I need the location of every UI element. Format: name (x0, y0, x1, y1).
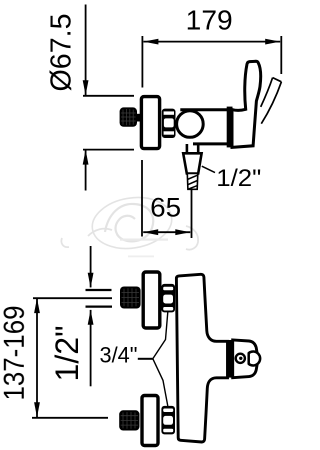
wall flange (side) (141, 97, 159, 149)
knob on cap (249, 352, 260, 366)
outlet stub (187, 144, 198, 153)
svg-text:137-169: 137-169 (0, 306, 31, 401)
svg-text:Ø67.5: Ø67.5 (46, 14, 78, 92)
extension line bottom for 137-169 (32, 417, 108, 419)
extension line right (handle tip) for 179 (280, 36, 282, 74)
screw (236, 354, 245, 363)
dimension 1/2 vertical line (front) (88, 246, 94, 386)
extension line right for 65 (191, 190, 193, 239)
supply pipe top line (86, 289, 112, 291)
svg-text:1/2": 1/2" (49, 326, 85, 382)
extension line bottom of flange (83, 149, 134, 151)
dimension 179 line (143, 39, 280, 45)
svg-text:1/2": 1/2" (216, 165, 261, 192)
supply pipe centerline / top extension (33, 297, 112, 299)
svg-text:65: 65 (150, 193, 181, 223)
lever blade (261, 78, 282, 124)
label 3/4" dash (138, 358, 153, 360)
cartridge cap (front) (233, 340, 258, 378)
watermark stamp (61, 192, 198, 257)
bottom union (front) (161, 406, 175, 435)
faucet body (side view) (180, 110, 229, 144)
leader line 1/2" (side) (202, 166, 215, 172)
bottom wall flange (front) (142, 396, 158, 446)
leader lines 3/4 unions (153, 312, 168, 406)
bottom wall nipple (front) (119, 410, 139, 430)
mixer body (front view) (176, 274, 227, 442)
extension line left for 65 (141, 160, 143, 237)
handle base and grip (232, 61, 261, 147)
wall nipple threaded (side) (120, 107, 137, 126)
cap separation bar (227, 340, 233, 378)
extension line left (wall) for 179 (141, 36, 143, 88)
dimension Ø67.5 line (83, 5, 89, 191)
svg-text:179: 179 (186, 5, 233, 36)
supply pipe bottom line (86, 306, 113, 308)
top wall flange (front) (143, 272, 160, 328)
outlet cone nut 1/2" (183, 153, 201, 173)
svg-text:3/4": 3/4" (100, 343, 138, 368)
swivel ball joint (177, 111, 204, 138)
top union (front) (161, 284, 175, 313)
handle separation bar (227, 107, 233, 148)
top wall nipple (front) (120, 287, 141, 309)
dimension 65 line (143, 229, 190, 235)
dimension 137-169 line (34, 298, 40, 417)
hex nut (side) (162, 109, 176, 138)
extension line top of flange (83, 95, 134, 97)
wall nipple connector (side) (136, 114, 142, 122)
threaded tail (187, 174, 198, 190)
